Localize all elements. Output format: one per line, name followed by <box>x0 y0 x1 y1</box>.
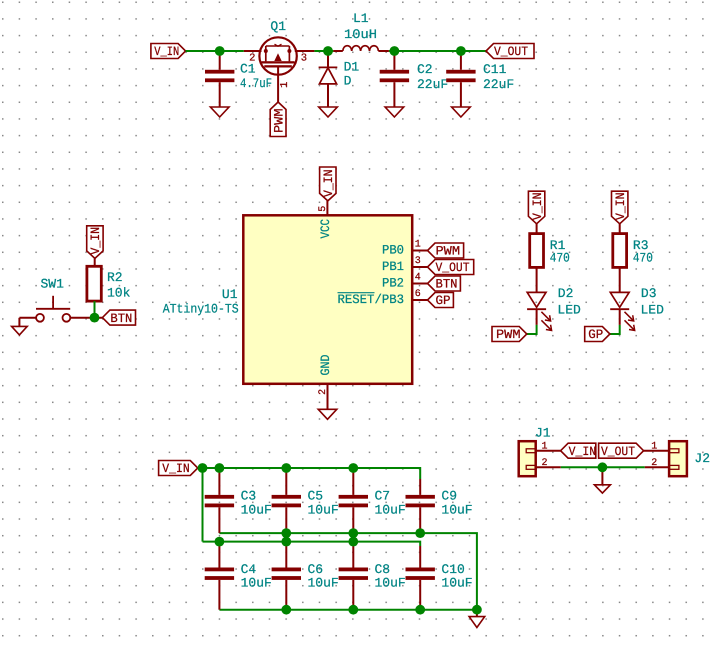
net label V_OUT (at J2) <box>599 443 644 459</box>
svg-text:PWM: PWM <box>436 244 461 259</box>
wire Q1 to D1/L1 <box>314 50 333 52</box>
node junction at D1 <box>323 46 333 56</box>
svg-text:2: 2 <box>318 389 329 395</box>
net label V_IN (above R1, vertical) <box>528 191 544 224</box>
connector J2 <box>669 441 710 476</box>
svg-text:10uF: 10uF <box>241 575 272 590</box>
pin 6 RESET/PB3 <box>338 289 428 307</box>
svg-text:C7: C7 <box>375 488 391 503</box>
capacitor C7 10uF <box>339 468 406 533</box>
svg-text:L1: L1 <box>353 11 369 26</box>
net label V_IN (at J1) <box>561 443 597 459</box>
wire R3 to D3 <box>619 267 621 292</box>
svg-text:5: 5 <box>318 206 329 212</box>
svg-text:J1: J1 <box>535 426 551 441</box>
transistor Q1 PMOS <box>244 37 315 102</box>
pin 1 J2 <box>644 441 670 452</box>
junctions rail2 <box>215 537 359 547</box>
pin 4 PB2 <box>382 273 428 291</box>
net label BTN (U1 pin 4) <box>428 276 461 292</box>
ground under C11 <box>452 107 471 117</box>
wire rail1 <box>219 533 477 610</box>
wire J1 pin2 to J2 pin2 <box>561 466 645 468</box>
svg-text:10uF: 10uF <box>375 502 406 517</box>
net label PWM (U1 pin 1) <box>428 243 464 259</box>
wire top rail V_IN <box>198 468 420 479</box>
svg-text:V_IN: V_IN <box>613 193 628 221</box>
capacitor C10 10uF <box>406 546 473 610</box>
svg-text:1: 1 <box>541 441 547 452</box>
svg-text:10uF: 10uF <box>308 575 339 590</box>
resistor R2 10k <box>87 258 131 301</box>
ground under U1 <box>318 409 337 419</box>
svg-text:1: 1 <box>279 81 291 87</box>
svg-text:GP: GP <box>588 327 603 342</box>
capacitor C6 10uF <box>272 542 339 610</box>
net label V_IN (above R2, vertical) <box>87 226 103 259</box>
svg-text:C5: C5 <box>308 488 324 503</box>
svg-text:4.7uF: 4.7uF <box>240 76 272 91</box>
svg-text:10uF: 10uF <box>441 502 472 517</box>
resistor R3 470 <box>613 224 653 268</box>
ground cap bank <box>469 610 485 628</box>
node junction gnd <box>598 462 608 472</box>
node junction BTN <box>90 313 100 323</box>
svg-text:V_IN: V_IN <box>162 461 190 476</box>
svg-text:PB2: PB2 <box>382 275 404 290</box>
net label V_OUT (top right) <box>486 44 534 60</box>
pin name VCC <box>318 219 333 239</box>
svg-text:PB0: PB0 <box>382 242 404 257</box>
capacitor C5 10uF <box>272 468 339 533</box>
wire L1 to V_OUT <box>389 50 486 52</box>
ground under C1 <box>210 107 229 117</box>
capacitor C4 10uF <box>205 542 272 610</box>
svg-text:V_OUT: V_OUT <box>494 44 528 59</box>
net label V_IN (top left) <box>151 44 186 60</box>
capacitor C11 22uF <box>446 51 514 107</box>
capacitor C8 10uF <box>339 542 406 610</box>
svg-text:V_IN: V_IN <box>88 227 103 255</box>
inductor L1 10uH <box>333 11 389 51</box>
svg-text:22uF: 22uF <box>483 77 514 92</box>
svg-text:V_IN: V_IN <box>569 444 597 459</box>
svg-text:3: 3 <box>301 53 307 65</box>
svg-text:10k: 10k <box>107 286 131 301</box>
pin 1 PB0 <box>382 240 428 258</box>
junctions rail1 <box>281 528 425 538</box>
ground at J1/J2 <box>594 467 610 493</box>
svg-text:ATtiny10-TS: ATtiny10-TS <box>163 301 239 316</box>
node junction at C2 <box>390 46 400 56</box>
svg-text:RESET/PB3: RESET/PB3 <box>338 292 405 307</box>
svg-text:1: 1 <box>415 240 421 251</box>
svg-text:PWM: PWM <box>496 327 521 342</box>
node junction at C11 <box>456 46 466 56</box>
wire V_IN to Q1 <box>186 50 244 52</box>
pin 2 J2 <box>645 458 669 469</box>
designator U1 <box>222 287 238 302</box>
net label BTN (at SW1) <box>102 310 135 326</box>
junctions top rail <box>198 463 359 473</box>
wire R1 to D2 <box>536 267 538 292</box>
svg-text:10uF: 10uF <box>308 502 339 517</box>
capacitor C3 10uF <box>205 468 272 533</box>
svg-text:BTN: BTN <box>436 277 458 292</box>
wire D2 to PWM label <box>527 325 537 334</box>
svg-text:D2: D2 <box>558 286 574 301</box>
svg-text:BTN: BTN <box>110 311 132 326</box>
capacitor C9 10uF <box>406 479 473 533</box>
resistor R1 470 <box>530 224 570 268</box>
svg-text:V_OUT: V_OUT <box>436 260 470 275</box>
net label V_IN (above R3, vertical) <box>612 191 628 224</box>
LED D3 <box>610 286 664 330</box>
svg-text:2: 2 <box>249 53 255 65</box>
svg-text:2: 2 <box>651 458 657 469</box>
svg-text:C3: C3 <box>241 488 257 503</box>
net label V_OUT (U1 pin 3) <box>428 260 474 276</box>
net label GP (at D3) <box>585 327 610 343</box>
junctions bottom rail <box>281 605 481 615</box>
svg-text:J2: J2 <box>694 451 710 466</box>
net label V_IN (above U1, vertical) <box>320 167 336 201</box>
svg-text:10uF: 10uF <box>375 575 406 590</box>
LED D2 <box>527 286 581 330</box>
svg-text:V_IN: V_IN <box>154 44 179 59</box>
svg-text:Q1: Q1 <box>270 19 286 34</box>
wire left drop to rail2 <box>202 468 204 542</box>
connector J1 <box>519 426 551 477</box>
svg-text:C9: C9 <box>441 488 457 503</box>
svg-text:PB1: PB1 <box>382 259 404 274</box>
net label GP (U1 pin 6) <box>428 293 454 309</box>
svg-text:C2: C2 <box>417 62 433 77</box>
svg-text:10uF: 10uF <box>241 502 272 517</box>
svg-text:470: 470 <box>550 251 570 266</box>
svg-text:V_OUT: V_OUT <box>601 444 635 459</box>
capacitor C1 4.7uF <box>205 51 272 107</box>
pin name GND <box>318 354 333 375</box>
pin number 2 (Q1) <box>249 53 255 65</box>
svg-text:10uH: 10uH <box>344 27 377 42</box>
pin 1 J1 <box>536 441 561 452</box>
svg-text:2: 2 <box>541 458 547 469</box>
wire R2 to BTN node <box>94 301 96 318</box>
value ATtiny10-TS <box>163 301 239 316</box>
diode D1 <box>319 51 360 107</box>
net label PWM (at D2) <box>492 327 527 343</box>
wire bottom rail <box>219 609 477 611</box>
designator Q1 <box>270 19 286 34</box>
svg-text:D1: D1 <box>344 59 360 74</box>
svg-text:C11: C11 <box>483 62 507 77</box>
svg-text:R2: R2 <box>107 270 123 285</box>
switch SW1 <box>19 277 102 327</box>
node junction at C1 <box>215 46 225 56</box>
pin 2 J1 <box>536 458 561 469</box>
net label PWM (below Q1, vertical) <box>270 102 286 137</box>
net label V_IN (cap bank) <box>159 461 198 477</box>
ground under SW1 <box>12 326 28 335</box>
svg-text:6: 6 <box>415 289 421 300</box>
svg-text:PWM: PWM <box>271 109 286 134</box>
svg-text:LED: LED <box>641 303 665 318</box>
svg-text:V_IN: V_IN <box>530 193 545 221</box>
ground under C2 <box>385 107 404 117</box>
svg-text:SW1: SW1 <box>41 277 65 292</box>
svg-text:D3: D3 <box>641 286 657 301</box>
svg-text:V_IN: V_IN <box>321 170 336 198</box>
capacitor C2 22uF <box>380 51 449 107</box>
svg-text:4: 4 <box>415 273 421 284</box>
svg-text:GP: GP <box>436 293 451 308</box>
pin 5 VCC wire <box>326 201 328 215</box>
svg-text:470: 470 <box>633 251 653 266</box>
wire D3 to GP label <box>610 325 620 334</box>
pin number 5 <box>318 206 329 212</box>
pin number 3 (Q1) <box>301 53 307 65</box>
pin number 1 (Q1) <box>279 81 291 87</box>
svg-text:LED: LED <box>557 303 581 318</box>
svg-text:VCC: VCC <box>318 219 333 239</box>
IC U1 ATtiny10-TS body <box>243 215 412 383</box>
pin 2 GND wire <box>327 384 329 410</box>
svg-text:10uF: 10uF <box>441 575 472 590</box>
svg-text:GND: GND <box>318 354 333 375</box>
svg-text:1: 1 <box>651 441 657 452</box>
pin number 2 <box>318 389 329 395</box>
svg-text:3: 3 <box>415 256 421 267</box>
wire rail2 <box>203 542 421 546</box>
pin 3 PB1 <box>382 256 428 274</box>
svg-text:D: D <box>344 74 352 89</box>
svg-text:22uF: 22uF <box>417 77 448 92</box>
ground under D1 <box>319 107 338 117</box>
svg-text:U1: U1 <box>222 287 238 302</box>
